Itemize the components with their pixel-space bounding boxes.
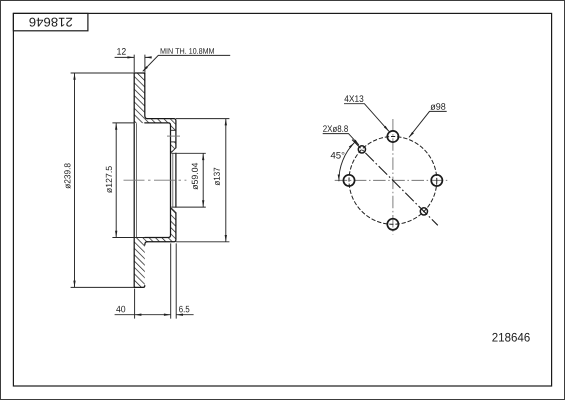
- bore chamfer bottom: [171, 208, 176, 213]
- dim text 12: [117, 48, 126, 55]
- dim od59.04 extension lines: [171, 153, 205, 207]
- label MIN TH. 10.8MM: [161, 48, 214, 54]
- 45deg dimension arc: [339, 143, 355, 182]
- leader 4X13: [344, 104, 389, 132]
- title block box: [13, 13, 88, 30]
- hatch friction ring top: [134, 73, 145, 123]
- disc OD bottom face: [134, 286, 143, 288]
- dim text od239.8: [64, 163, 70, 188]
- hat outer top: [147, 119, 176, 148]
- bolt hole lower edge (section): [171, 141, 176, 143]
- 45deg diagonal centerline: [352, 140, 438, 226]
- hatch hat cylinder bottom: [145, 238, 176, 242]
- leader 2Xod8.8: [323, 134, 359, 145]
- hatch hat flange top above bolt hole: [171, 123, 176, 130]
- 45deg arc arrowheads: [349, 143, 355, 149]
- hat inner surface + flange inner edge: [145, 123, 171, 238]
- disc right face top: [145, 73, 147, 119]
- dim 40 line: [115, 314, 171, 316]
- dim text 40: [116, 306, 125, 313]
- bolt hole right 13: [431, 175, 442, 186]
- front view vertical centerline: [392, 119, 394, 235]
- front view horizontal centerline: [335, 179, 449, 181]
- dim 6.5 tail: [176, 314, 193, 316]
- dim od59.04 line: [202, 153, 204, 207]
- leader MIN TH: [143, 55, 230, 71]
- label 45deg: [331, 152, 345, 159]
- dim text 6.5: [179, 306, 189, 313]
- title text 218646 rotated 180: [29, 18, 72, 27]
- bolt circle od98 dashed: [349, 137, 437, 225]
- small hole lower-right 8.8: [420, 208, 427, 215]
- disc inner bore second line: [136, 123, 138, 237]
- disc left face: [133, 73, 135, 287]
- part number bottom right: [492, 333, 529, 342]
- small hole upper-left 8.8: [358, 146, 365, 153]
- bore chamfer edge gray: [172, 154, 174, 207]
- bolt hole axis (section): [167, 135, 180, 137]
- dim extension lines hat bottom: [171, 243, 177, 318]
- bolt hole upper edge (section): [171, 129, 176, 131]
- hat outer bottom: [147, 213, 176, 242]
- dim text od59.04: [192, 163, 198, 190]
- dim text od127.5: [106, 166, 112, 193]
- dim od127.5 extension lines: [112, 123, 144, 238]
- dim od239.8 line: [74, 73, 76, 287]
- hatch friction ring bottom: [134, 237, 145, 287]
- section axis centerline: [124, 179, 187, 181]
- disc OD top face: [134, 72, 145, 74]
- bolt hole top 13: [387, 131, 398, 142]
- dim od127.5 line: [115, 123, 117, 238]
- bore chamfer top: [171, 148, 176, 153]
- label 4X13: [344, 95, 363, 102]
- dim 12 extension lines: [134, 55, 145, 73]
- label od98: [430, 103, 445, 110]
- hatch hat cylinder top: [145, 119, 176, 123]
- bolt hole left 13: [343, 175, 354, 186]
- hatch hat flange top below bolt hole: [171, 142, 176, 153]
- disc right face bottom: [143, 242, 147, 288]
- dim text od137: [214, 168, 220, 186]
- leader od98: [409, 111, 447, 137]
- dim od137 line: [225, 119, 227, 242]
- dim od239.8 extension lines: [71, 73, 134, 287]
- label 2Xod8.8: [323, 125, 348, 132]
- dim 40 extension line left: [134, 289, 136, 319]
- hatch hat flange bottom: [171, 207, 176, 237]
- dim 12 line: [115, 56, 149, 58]
- hub face edge through bore: [175, 153, 177, 207]
- dim od137 extension lines: [176, 119, 230, 242]
- bolt hole bottom 13: [387, 219, 398, 230]
